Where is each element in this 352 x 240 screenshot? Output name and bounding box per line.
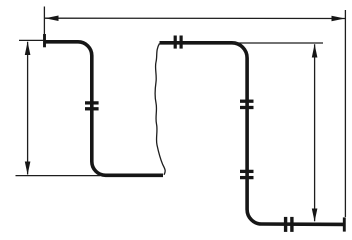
- wire: left formed section: [45, 42, 164, 176]
- extension line: left height dimension, top: [19, 39, 44, 41]
- arrowhead left of overall dimension: [45, 16, 59, 22]
- right height dimension line: [314, 44, 316, 221]
- arrowhead up of right dimension: [312, 44, 318, 57]
- arrowhead right of overall dimension: [332, 16, 346, 21]
- double tick: right vertical leg upper: [240, 101, 254, 107]
- double tick: bottom right segment: [286, 217, 292, 232]
- wire: right formed section: [160, 43, 345, 225]
- double tick: left vertical leg: [85, 103, 99, 109]
- overall length dimension line: [45, 17, 345, 19]
- arrowhead down of right dimension: [312, 209, 318, 222]
- extension line: top dimension, right: [344, 10, 346, 217]
- break line (wavy): [155, 44, 165, 175]
- double tick: right top segment: [175, 36, 181, 49]
- double tick: right vertical leg lower: [240, 171, 254, 177]
- extension line: left height dimension, bottom: [16, 175, 101, 177]
- extension line: top dimension, left: [43, 7, 45, 36]
- start mark tick: [43, 34, 46, 47]
- extension line: right height dimension, top: [233, 42, 323, 44]
- arrowhead down of left dimension: [25, 162, 31, 175]
- end mark tick: [343, 217, 346, 231]
- left height dimension line: [27, 42, 29, 175]
- arrowhead up of left dimension: [25, 42, 31, 55]
